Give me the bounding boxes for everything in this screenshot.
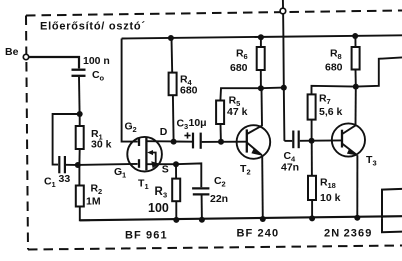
svg-text:10μ: 10μ	[189, 117, 207, 129]
wire Be to Co	[29, 57, 79, 68]
resistor R18	[308, 141, 341, 220]
label BF 961	[125, 230, 168, 242]
node R18 on rail	[309, 215, 315, 221]
svg-text:22n: 22n	[210, 193, 228, 205]
transistor Q1 T2 BF240	[237, 88, 271, 220]
wire output to right edge	[356, 57, 402, 86]
svg-text:18: 18	[328, 181, 336, 190]
resistor R3	[148, 164, 180, 220]
svg-text:47 k: 47 k	[227, 106, 248, 118]
node supply tap junction	[281, 85, 287, 91]
node T3 emitter on rail	[354, 215, 360, 221]
wire G1 node to gate 1	[78, 164, 138, 165]
svg-text:G: G	[114, 166, 122, 178]
svg-text:2: 2	[133, 125, 137, 134]
svg-text:3: 3	[373, 159, 377, 168]
svg-text:1M: 1M	[86, 196, 101, 208]
svg-text:100: 100	[148, 201, 169, 215]
capacitor C3 electrolytic	[174, 117, 221, 149]
wire output terminal drop line	[283, 0, 285, 141]
svg-text:1: 1	[145, 182, 149, 191]
svg-text:1: 1	[52, 180, 56, 189]
svg-text:3: 3	[163, 191, 167, 200]
wire collector node to supply tap node	[261, 87, 284, 90]
wire node to T3 base	[312, 139, 342, 141]
svg-text:o: o	[100, 74, 105, 83]
svg-text:680: 680	[325, 62, 343, 74]
wire junction to C1 left	[53, 114, 80, 165]
svg-text:30 k: 30 k	[91, 139, 112, 151]
resistor R4	[169, 38, 198, 141]
svg-text:10 k: 10 k	[320, 192, 341, 204]
svg-text:BF 240: BF 240	[237, 228, 280, 240]
transistor Q2 T3 2N2369	[332, 87, 377, 218]
wire ground rail	[80, 216, 402, 220]
svg-text:G: G	[125, 121, 133, 133]
capacitor C2	[176, 163, 228, 220]
node R6 bottom collector junction	[258, 85, 264, 91]
node R8 bottom collector junction	[353, 84, 359, 90]
node drain/R4/C3 junction	[171, 139, 177, 145]
wire top supply rail	[122, 35, 402, 38]
svg-text:6: 6	[244, 52, 248, 61]
wire drain to node	[146, 140, 173, 142]
node G1 junction	[75, 162, 81, 168]
resistor R5	[216, 88, 261, 142]
svg-text:2: 2	[222, 180, 226, 189]
dashed border bottom	[28, 246, 402, 250]
svg-text:47n: 47n	[281, 162, 299, 174]
node C2 on rail	[199, 217, 205, 223]
svg-text:BF 961: BF 961	[125, 230, 168, 242]
node R6 top on rail	[258, 34, 264, 40]
wire source to node	[146, 163, 176, 165]
svg-text:7: 7	[327, 97, 331, 106]
svg-text:1: 1	[122, 171, 126, 180]
node Be input terminal	[5, 46, 29, 60]
capacitor Co	[72, 55, 110, 83]
resistor R1	[76, 114, 112, 165]
svg-text:Előerősító/ osztó´: Előerősító/ osztó´	[40, 21, 146, 33]
connector box bottom right	[382, 189, 402, 232]
svg-text:5,6 k: 5,6 k	[319, 106, 343, 118]
node C3/R5/base T2 junction	[218, 139, 224, 145]
svg-text:680: 680	[180, 85, 198, 97]
svg-text:2N 2369: 2N 2369	[324, 228, 372, 240]
node R3 on rail	[173, 217, 179, 223]
node R4 top on rail	[168, 35, 174, 41]
node R8 top on rail	[352, 33, 358, 39]
node T2 emitter on rail	[260, 216, 266, 222]
resistor R7	[308, 86, 356, 141]
wire node to T2 base	[221, 141, 246, 143]
wire Co to R1 node	[78, 77, 81, 114]
svg-text:100 n: 100 n	[83, 55, 110, 67]
transistor U1 MOSFET T1 BF961	[114, 121, 169, 192]
resistor R2	[76, 165, 102, 220]
node output terminal	[280, 8, 286, 14]
capacitor C4	[281, 131, 312, 174]
node C4/R7/base T3 junction	[309, 138, 315, 144]
svg-text:Be: Be	[5, 46, 19, 58]
resistor R6	[230, 37, 265, 88]
label 2N2369	[324, 228, 372, 240]
title Előerősítő/osztó	[40, 21, 146, 33]
svg-text:2: 2	[247, 168, 251, 177]
resistor R8	[325, 36, 360, 87]
svg-text:680: 680	[230, 62, 248, 74]
dashed border top	[26, 11, 402, 16]
label BF 240	[237, 228, 280, 240]
svg-text:S: S	[162, 164, 169, 176]
wire G2 drop from rail	[122, 39, 138, 142]
svg-text:D: D	[160, 126, 168, 138]
node source junction	[173, 161, 179, 167]
dashed border left	[26, 16, 28, 250]
node Co/R1/C1 junction	[77, 111, 83, 117]
svg-text:8: 8	[338, 52, 342, 61]
capacitor C1	[44, 156, 75, 189]
svg-text:33: 33	[59, 173, 71, 185]
